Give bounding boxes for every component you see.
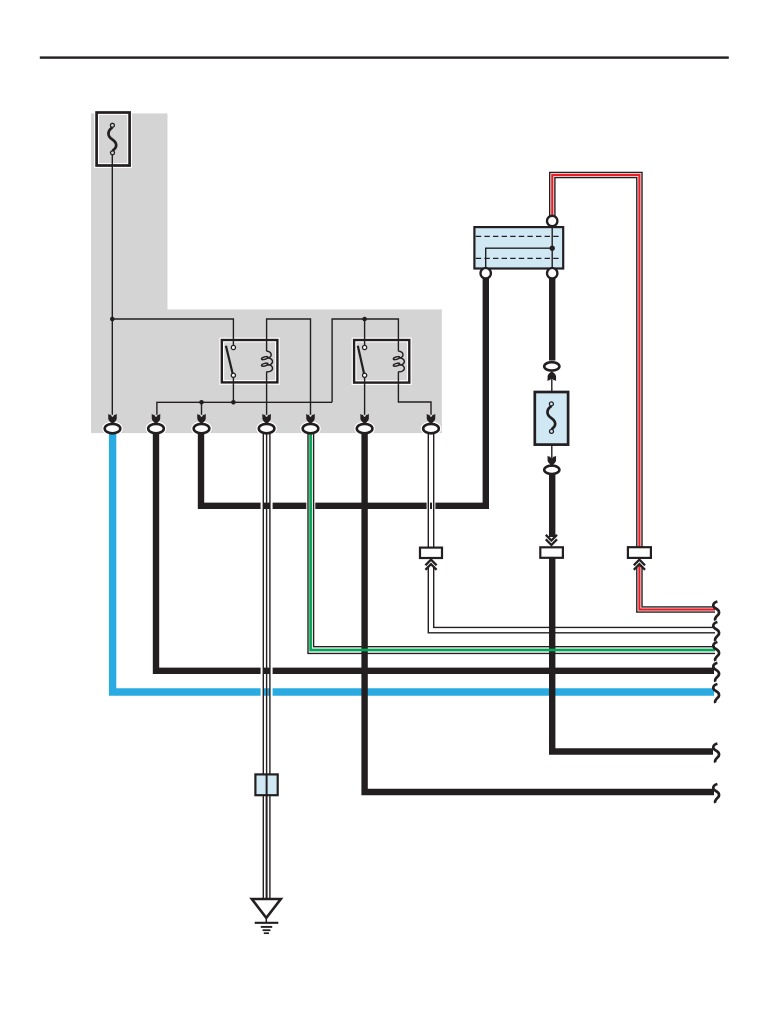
terminal 7 oval — [423, 424, 439, 433]
break curl green wire — [713, 642, 719, 661]
red wire top loop — [550, 172, 642, 548]
terminal ovals white casings — [105, 424, 439, 433]
fuse F2 element — [547, 406, 555, 429]
break curl black wire terminal2 — [713, 663, 719, 682]
internal trace vertical — [551, 222, 553, 273]
relay R1 switch contacts — [231, 345, 235, 349]
thick wire: terminal3 to connector-box left pin — [201, 277, 486, 506]
wire relay1 coil bottom to terminal 4 — [266, 372, 268, 415]
wire relay2 switch bottom to terminal 6 — [364, 375, 366, 414]
terminal 2 oval — [148, 424, 164, 433]
relay R2 coil — [393, 351, 404, 372]
terminal 1 oval — [105, 424, 121, 433]
thick wire: connector-box right pin to oval — [549, 277, 555, 361]
wire relay2 coil bottom to terminal 7 — [398, 372, 431, 415]
node A junction dot — [110, 317, 115, 322]
noise filter box on W2 — [255, 774, 277, 795]
oval pair above fuse F2 — [544, 362, 559, 370]
IC3 chevrons up — [634, 560, 645, 570]
wire through noise filter — [266, 774, 268, 898]
terminal 6 arrowhead — [360, 414, 369, 424]
oval below fuse F2 — [544, 466, 559, 474]
thick wire: connector to lower right edge — [552, 558, 713, 752]
terminal 4 oval — [259, 424, 275, 433]
relay R2 switch blade — [358, 346, 364, 374]
thick wire: fuse2 oval down to connector — [549, 475, 555, 538]
wire oval to fuse F2 — [551, 374, 553, 392]
green wire edges (terminal5 to right edge) — [308, 433, 715, 653]
pin top — [547, 216, 557, 226]
terminal 3 oval — [194, 424, 210, 433]
terminal 7 arrowhead — [427, 414, 436, 424]
pin bottom left — [481, 268, 491, 278]
fuse F2 box — [535, 392, 568, 445]
junction block shading relay area — [91, 309, 442, 433]
dashed separator top — [476, 235, 562, 237]
break curl black wire mid — [713, 744, 719, 763]
junction dot bus-term3 — [199, 400, 204, 405]
pin bottom right — [547, 268, 557, 278]
wire node A to relay1 switch — [112, 319, 233, 347]
arrow up into oval — [548, 372, 557, 382]
internal trace L — [486, 248, 553, 268]
wire relay1 coil top to green connector — [267, 319, 311, 415]
node B junction dot — [362, 317, 367, 322]
component box white casings — [97, 113, 410, 383]
wire fuse F2 to oval below — [551, 445, 553, 464]
ground symbol — [252, 899, 281, 933]
inline connector IC1 (white wire) — [420, 548, 442, 558]
wire bus y402 — [157, 402, 332, 415]
terminal 5 oval — [303, 424, 319, 433]
break curl black wire terminal6 — [713, 784, 719, 803]
junction block shading left column — [91, 113, 168, 309]
terminal 3 arrowhead — [197, 414, 206, 424]
fuse F1 element — [108, 127, 116, 150]
red wire lower segment — [637, 566, 715, 612]
terminal 6 oval — [357, 424, 373, 433]
connector box (relay block) — [474, 227, 563, 268]
inline connector IC3 (red wire) — [628, 547, 651, 558]
relay R1 switch blade — [226, 346, 233, 374]
wire bus up to relay2 feed — [332, 319, 398, 402]
relay R2 switch contacts — [363, 345, 367, 349]
internal junction dot — [550, 246, 555, 251]
thin circuit wires in junction block — [112, 153, 431, 414]
relay R1 coil — [261, 351, 272, 372]
inline connector IC2 (black wire) chevrons down — [546, 535, 557, 545]
relay R1 box — [222, 340, 278, 382]
white wire W1 upper (terminal7 to connector) — [428, 433, 433, 548]
terminal 2 arrowhead — [152, 414, 161, 424]
terminal 1 arrowhead — [108, 414, 117, 424]
thick wire: terminal6 down and right edge — [365, 433, 714, 792]
white wire W2 triple (terminal4 to ground) — [262, 433, 272, 898]
fuse F1 box — [97, 113, 130, 166]
green wire centerline — [311, 433, 715, 650]
break curl white wire — [713, 622, 719, 641]
wire branch to terminal 3 — [201, 402, 203, 415]
wire node B to relay2 switch — [364, 319, 366, 347]
blue wire (terminal1 to right edge) — [113, 433, 714, 692]
break curl red wire — [713, 602, 719, 621]
terminal 5 arrowhead — [306, 414, 315, 424]
wire relay1 switch bottom to bus — [232, 375, 234, 402]
terminal 4 arrowhead — [262, 414, 271, 424]
relay R2 box — [354, 340, 409, 383]
IC1 chevrons up — [425, 560, 436, 570]
white wire W1 lower (connector to right edge) — [428, 566, 715, 633]
arrow down into oval — [548, 456, 557, 466]
junction dot bus-relay1 — [231, 400, 236, 405]
thick wire: terminal2 to right edge — [156, 433, 714, 671]
break curl blue wire — [713, 684, 719, 703]
dashed separator bottom — [476, 257, 562, 259]
top rule — [40, 56, 729, 58]
wire fuse1 to node A — [111, 153, 113, 414]
